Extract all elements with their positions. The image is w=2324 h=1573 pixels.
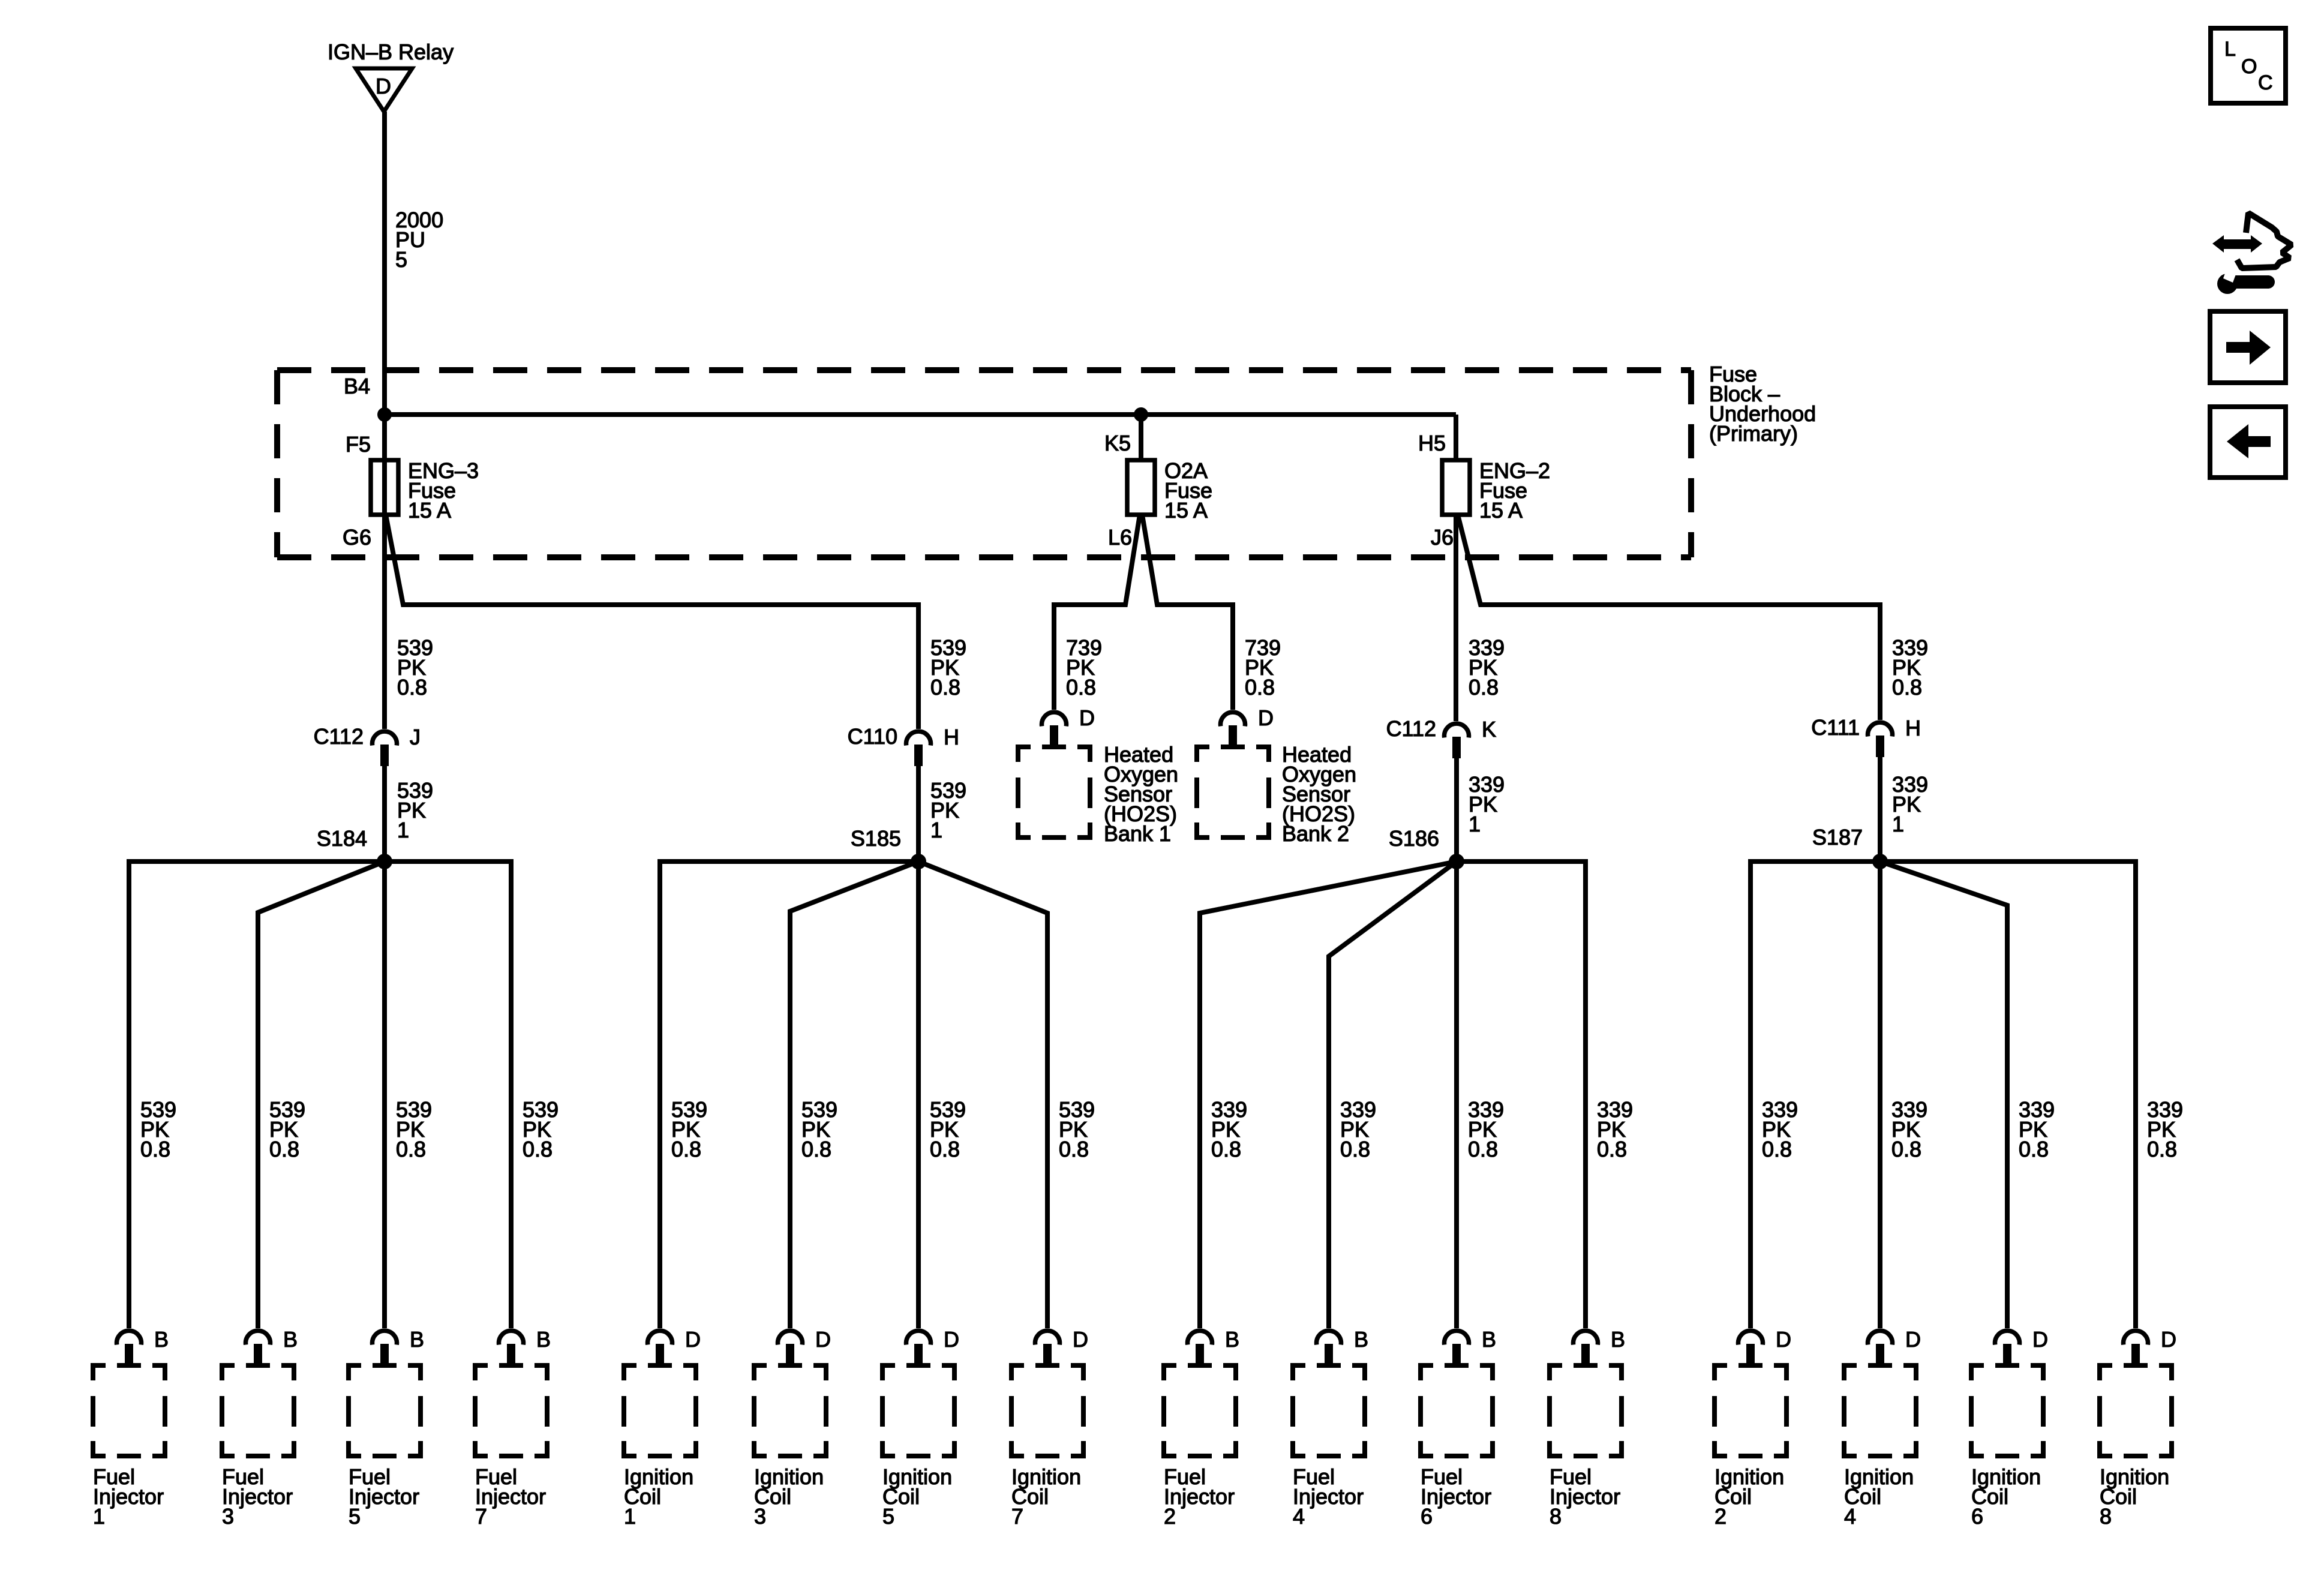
label ignition coil 5 [882,1464,952,1529]
connector C112 pin J symbol [373,731,397,766]
svg-text:D: D [376,74,391,98]
connector pin D of ignition coil 1 [648,1331,672,1365]
connector pin D of ignition coil 6 [1995,1331,2020,1365]
connector pin D of ignition coil 8 [2124,1331,2148,1365]
wire bus splice S186 [1457,861,1586,1328]
label fuel injector 8 [1550,1464,1620,1529]
component box ignition coil 8 [2100,1365,2172,1456]
svg-text:G6: G6 [343,525,371,550]
svg-text:J6: J6 [1431,525,1454,550]
svg-text:(Primary): (Primary) [1709,421,1798,446]
wire label 339 PK 0.8 column fuel injector 2 [1211,1097,1247,1161]
heated oxygen sensor HO2S bank1 box [1018,747,1090,837]
svg-text:0.8: 0.8 [1469,675,1499,700]
svg-text:0.8: 0.8 [1340,1137,1370,1161]
component box ignition coil 6 [1971,1365,2043,1456]
wire bus splice S184 [129,861,511,1328]
svg-text:C: C [2258,71,2273,94]
svg-text:8: 8 [2100,1504,2112,1529]
wire label 539 PK 0.8 column fuel injector 1 [140,1097,176,1161]
fuse O2A label [1164,458,1212,523]
svg-text:D: D [2032,1327,2048,1352]
label fuel injector 2 [1164,1464,1235,1529]
component box fuel injector 1 [93,1365,165,1456]
svg-text:S184: S184 [317,826,367,851]
component box ignition coil 5 [882,1365,954,1456]
svg-text:S187: S187 [1812,825,1863,849]
svg-text:D: D [815,1327,831,1352]
svg-text:0.8: 0.8 [1245,675,1275,700]
HO2S bank1 label [1104,742,1178,846]
wire label 539 PK 0.8 [930,635,966,700]
label fuel injector 6 [1421,1464,1491,1529]
wire label 539 PK 0.8 column ignition coil 1 [671,1097,707,1161]
label fuel injector 3 [222,1464,293,1529]
wire label 539 PK 1 [930,778,966,842]
svg-text:5: 5 [395,247,407,272]
svg-text:0.8: 0.8 [801,1137,831,1161]
wire S186 down to fuel injector 6 [1454,861,1459,1328]
svg-text:0.8: 0.8 [1762,1137,1792,1161]
fuse ENG-3 label [408,458,479,523]
svg-text:L6: L6 [1108,525,1132,550]
icon LOC box [2211,28,2286,103]
wire from relay D to fuse block B4 and through ENG-3 fuse down to C112 J [382,112,387,729]
connector pin D of ignition coil 2 [1739,1331,1763,1365]
wire label 539 PK 0.8 column ignition coil 5 [930,1097,966,1161]
svg-text:IGN–B Relay: IGN–B Relay [328,40,454,64]
svg-text:O: O [2241,55,2257,78]
label ignition coil 4 [1844,1464,1914,1529]
component box fuel injector 4 [1293,1365,1365,1456]
wire C111 H to splice S187 [1878,756,1882,861]
heated oxygen sensor HO2S bank2 box [1197,747,1269,837]
connector pin B of fuel injector 3 [246,1331,271,1365]
wire K5 branch down to O2A fuse [1139,415,1143,462]
wire L6 left branch to HO2S bank1 [1054,515,1140,710]
wire label 539 PK 0.8 column ignition coil 3 [801,1097,837,1161]
connector pin B of fuel injector 2 [1188,1331,1212,1365]
wire label 339 PK 0.8 [1469,635,1505,700]
label ignition coil 3 [754,1464,824,1529]
svg-text:B: B [410,1327,424,1352]
connector pin B of fuel injector 1 [117,1331,142,1365]
component box fuel injector 5 [349,1365,421,1456]
component box fuel injector 7 [475,1365,547,1456]
svg-text:1: 1 [1469,812,1481,836]
svg-text:3: 3 [754,1504,766,1529]
wire S186 diagonal branch to fuel injector 2 [1200,861,1457,1328]
svg-text:15 A: 15 A [1479,498,1523,523]
svg-text:D: D [2161,1327,2176,1352]
connector pin B of fuel injector 7 [499,1331,524,1365]
wire label 339 PK 0.8 [1892,635,1928,700]
wire label 339 PK 0.8 column ignition coil 8 [2147,1097,2183,1161]
component box fuel injector 6 [1421,1365,1493,1456]
svg-text:0.8: 0.8 [269,1137,299,1161]
wire H5 branch down to ENG-2 fuse [1454,415,1458,462]
svg-text:D: D [1258,706,1274,730]
connector pin B of fuel injector 4 [1317,1331,1341,1365]
svg-text:1: 1 [397,818,409,842]
svg-text:0.8: 0.8 [2019,1137,2049,1161]
label fuel injector 1 [93,1464,164,1529]
splice S186 dot [1449,854,1464,869]
svg-text:0.8: 0.8 [930,1137,960,1161]
wire G6 diagonal branch to C110 H [386,515,918,729]
wire label 339 PK 0.8 column fuel injector 6 [1468,1097,1504,1161]
wire label 539 PK 1 [397,778,433,842]
svg-text:4: 4 [1293,1504,1305,1529]
svg-text:F5: F5 [346,432,371,457]
wire J6 straight down to C112 K [1454,515,1458,721]
label fuel injector 7 [475,1464,546,1529]
svg-text:0.8: 0.8 [140,1137,170,1161]
wire label 2000 PU 5 [395,208,443,272]
svg-text:D: D [1073,1327,1088,1352]
fuse ENG-2 label [1479,458,1550,523]
svg-text:D: D [685,1327,701,1352]
svg-text:0.8: 0.8 [397,675,427,700]
svg-text:K5: K5 [1104,431,1131,455]
connector pin D of ignition coil 4 [1868,1331,1893,1365]
wire S187 down to ignition coil 4 [1878,861,1882,1328]
connector pin B of fuel injector 5 [373,1331,397,1365]
svg-text:C112: C112 [314,724,364,749]
svg-text:7: 7 [475,1504,487,1529]
wire C112 K to splice S186 [1454,757,1459,861]
svg-text:K: K [1482,717,1496,742]
label ignition coil 2 [1715,1464,1784,1529]
wire label 339 PK 0.8 column ignition coil 4 [1891,1097,1927,1161]
wire label 539 PK 0.8 column fuel injector 3 [269,1097,305,1161]
wire S185 down to ignition coil 5 [916,861,921,1328]
wire J6 diagonal branch to C111 H [1458,515,1880,720]
svg-text:B: B [283,1327,298,1352]
connector pin D of ignition coil 7 [1035,1331,1060,1365]
svg-text:C111: C111 [1811,715,1860,740]
label ignition coil 1 [624,1464,693,1529]
component box fuel injector 8 [1550,1365,1622,1456]
connector HO2S bank1 pin D symbol [1042,712,1067,747]
svg-text:Bank 1: Bank 1 [1104,821,1171,846]
svg-text:H5: H5 [1418,431,1446,455]
svg-text:H: H [944,725,959,749]
svg-text:3: 3 [222,1504,234,1529]
wire label 739 PK 0.8 [1245,635,1281,700]
svg-text:B: B [1611,1327,1625,1352]
svg-text:B: B [1225,1327,1239,1352]
svg-text:0.8: 0.8 [1468,1137,1498,1161]
component box ignition coil 7 [1011,1365,1083,1456]
svg-text:8: 8 [1550,1504,1562,1529]
connector pin D of ignition coil 3 [778,1331,803,1365]
fuse O2A 15A symbol [1127,460,1155,515]
wire S184 down to fuel injector 5 [382,861,387,1328]
node B4 junction dot [377,407,392,422]
HO2S bank2 label [1282,742,1356,846]
connector C110 pin H symbol [906,731,931,766]
node K5 junction dot [1134,407,1148,422]
svg-text:0.8: 0.8 [930,675,960,700]
svg-text:C110: C110 [848,724,897,749]
svg-text:7: 7 [1011,1504,1023,1529]
svg-text:B: B [1354,1327,1368,1352]
svg-text:1: 1 [624,1504,636,1529]
svg-text:C112: C112 [1386,716,1436,741]
svg-text:2: 2 [1164,1504,1176,1529]
connector pin B of fuel injector 6 [1445,1331,1469,1365]
label fuel injector 4 [1293,1464,1364,1529]
svg-text:15 A: 15 A [408,498,451,523]
svg-text:0.8: 0.8 [671,1137,701,1161]
svg-text:6: 6 [1421,1504,1433,1529]
svg-text:0.8: 0.8 [2147,1137,2177,1161]
svg-text:0.8: 0.8 [1891,1137,1921,1161]
connector C112 pin K symbol [1445,724,1469,758]
svg-text:S185: S185 [851,826,901,851]
relay IGN-B triangle symbol pin D [356,68,412,112]
component box ignition coil 3 [754,1365,826,1456]
wire S185 diagonal branch to ignition coil 3 [790,861,918,1328]
svg-text:4: 4 [1844,1504,1856,1529]
wire label 339 PK 1 [1892,772,1928,836]
icon back arrow box [2210,407,2286,478]
icon forward arrow box [2210,311,2286,383]
svg-text:B4: B4 [344,374,370,398]
connector C111 pin H symbol [1868,722,1893,757]
splice S184 dot [377,854,392,869]
label ignition coil 7 [1011,1464,1081,1529]
component box fuel injector 3 [222,1365,294,1456]
connector pin D of ignition coil 5 [906,1331,931,1365]
fuse ENG-2 15A symbol [1442,460,1470,515]
wire S187 diagonal branch to ignition coil 6 [1880,861,2007,1328]
svg-text:0.8: 0.8 [1892,675,1922,700]
svg-text:Bank 2: Bank 2 [1282,821,1349,846]
svg-text:B: B [536,1327,551,1352]
wire label 739 PK 0.8 [1066,635,1102,700]
svg-text:L: L [2224,38,2236,61]
wire C112 J to splice S184 [382,765,387,861]
wire S185 diagonal branch to ignition coil 7 [918,861,1047,1328]
wire label 339 PK 0.8 column fuel injector 4 [1340,1097,1376,1161]
wire label 539 PK 0.8 column fuel injector 7 [523,1097,559,1161]
svg-text:0.8: 0.8 [396,1137,426,1161]
wire label 339 PK 0.8 column ignition coil 6 [2019,1097,2055,1161]
svg-text:H: H [1905,716,1921,740]
svg-text:D: D [944,1327,959,1352]
svg-text:0.8: 0.8 [1059,1137,1089,1161]
label ignition coil 6 [1971,1464,2041,1529]
fuse ENG-3 15A symbol [371,460,398,515]
component box ignition coil 1 [624,1365,696,1456]
svg-text:0.8: 0.8 [1597,1137,1627,1161]
wire label 539 PK 0.8 column fuel injector 5 [396,1097,432,1161]
component box ignition coil 4 [1844,1365,1916,1456]
svg-text:6: 6 [1971,1504,1983,1529]
svg-text:D: D [1776,1327,1791,1352]
connector HO2S bank2 pin D symbol [1221,712,1245,747]
svg-text:0.8: 0.8 [1066,675,1096,700]
wire S184 diagonal branch to fuel injector 3 [258,861,385,1328]
svg-text:1: 1 [930,818,942,842]
fuse block underhood dashed outline [277,370,1691,557]
connector pin B of fuel injector 8 [1574,1331,1598,1365]
svg-text:2: 2 [1715,1504,1727,1529]
component box ignition coil 2 [1715,1365,1786,1456]
wire bus splice S185 [660,861,918,1328]
wire label 339 PK 0.8 column ignition coil 2 [1762,1097,1798,1161]
wire L6 right branch to HO2S bank2 [1142,515,1233,710]
wire label 539 PK 0.8 column ignition coil 7 [1059,1097,1095,1161]
svg-text:D: D [1905,1327,1921,1352]
svg-text:D: D [1079,706,1095,730]
icon service tool (hand with wrench) [2212,213,2292,294]
svg-text:B: B [1482,1327,1496,1352]
component box fuel injector 2 [1164,1365,1236,1456]
wire label 339 PK 1 [1469,772,1505,836]
svg-text:1: 1 [1892,812,1904,836]
label fuel injector 5 [349,1464,419,1529]
svg-text:5: 5 [882,1504,894,1529]
svg-text:B: B [154,1327,169,1352]
wire label 339 PK 0.8 column fuel injector 8 [1597,1097,1633,1161]
wire bus splice S187 [1750,861,2136,1328]
svg-text:1: 1 [93,1504,105,1529]
wire bus inside fuse block from B4 to H5 [385,412,1456,417]
svg-text:0.8: 0.8 [523,1137,553,1161]
svg-text:0.8: 0.8 [1211,1137,1241,1161]
wire C110 H to splice S185 [916,765,921,861]
wire label 539 PK 0.8 [397,635,433,700]
splice S185 dot [911,854,926,869]
label ignition coil 8 [2100,1464,2169,1529]
fuse block label [1709,362,1816,446]
splice S187 dot [1872,854,1888,869]
svg-text:S186: S186 [1389,826,1439,851]
svg-text:J: J [410,725,421,749]
wire S186 diagonal branch to fuel injector 4 [1329,861,1457,1328]
svg-text:15 A: 15 A [1164,498,1208,523]
svg-text:5: 5 [349,1504,361,1529]
